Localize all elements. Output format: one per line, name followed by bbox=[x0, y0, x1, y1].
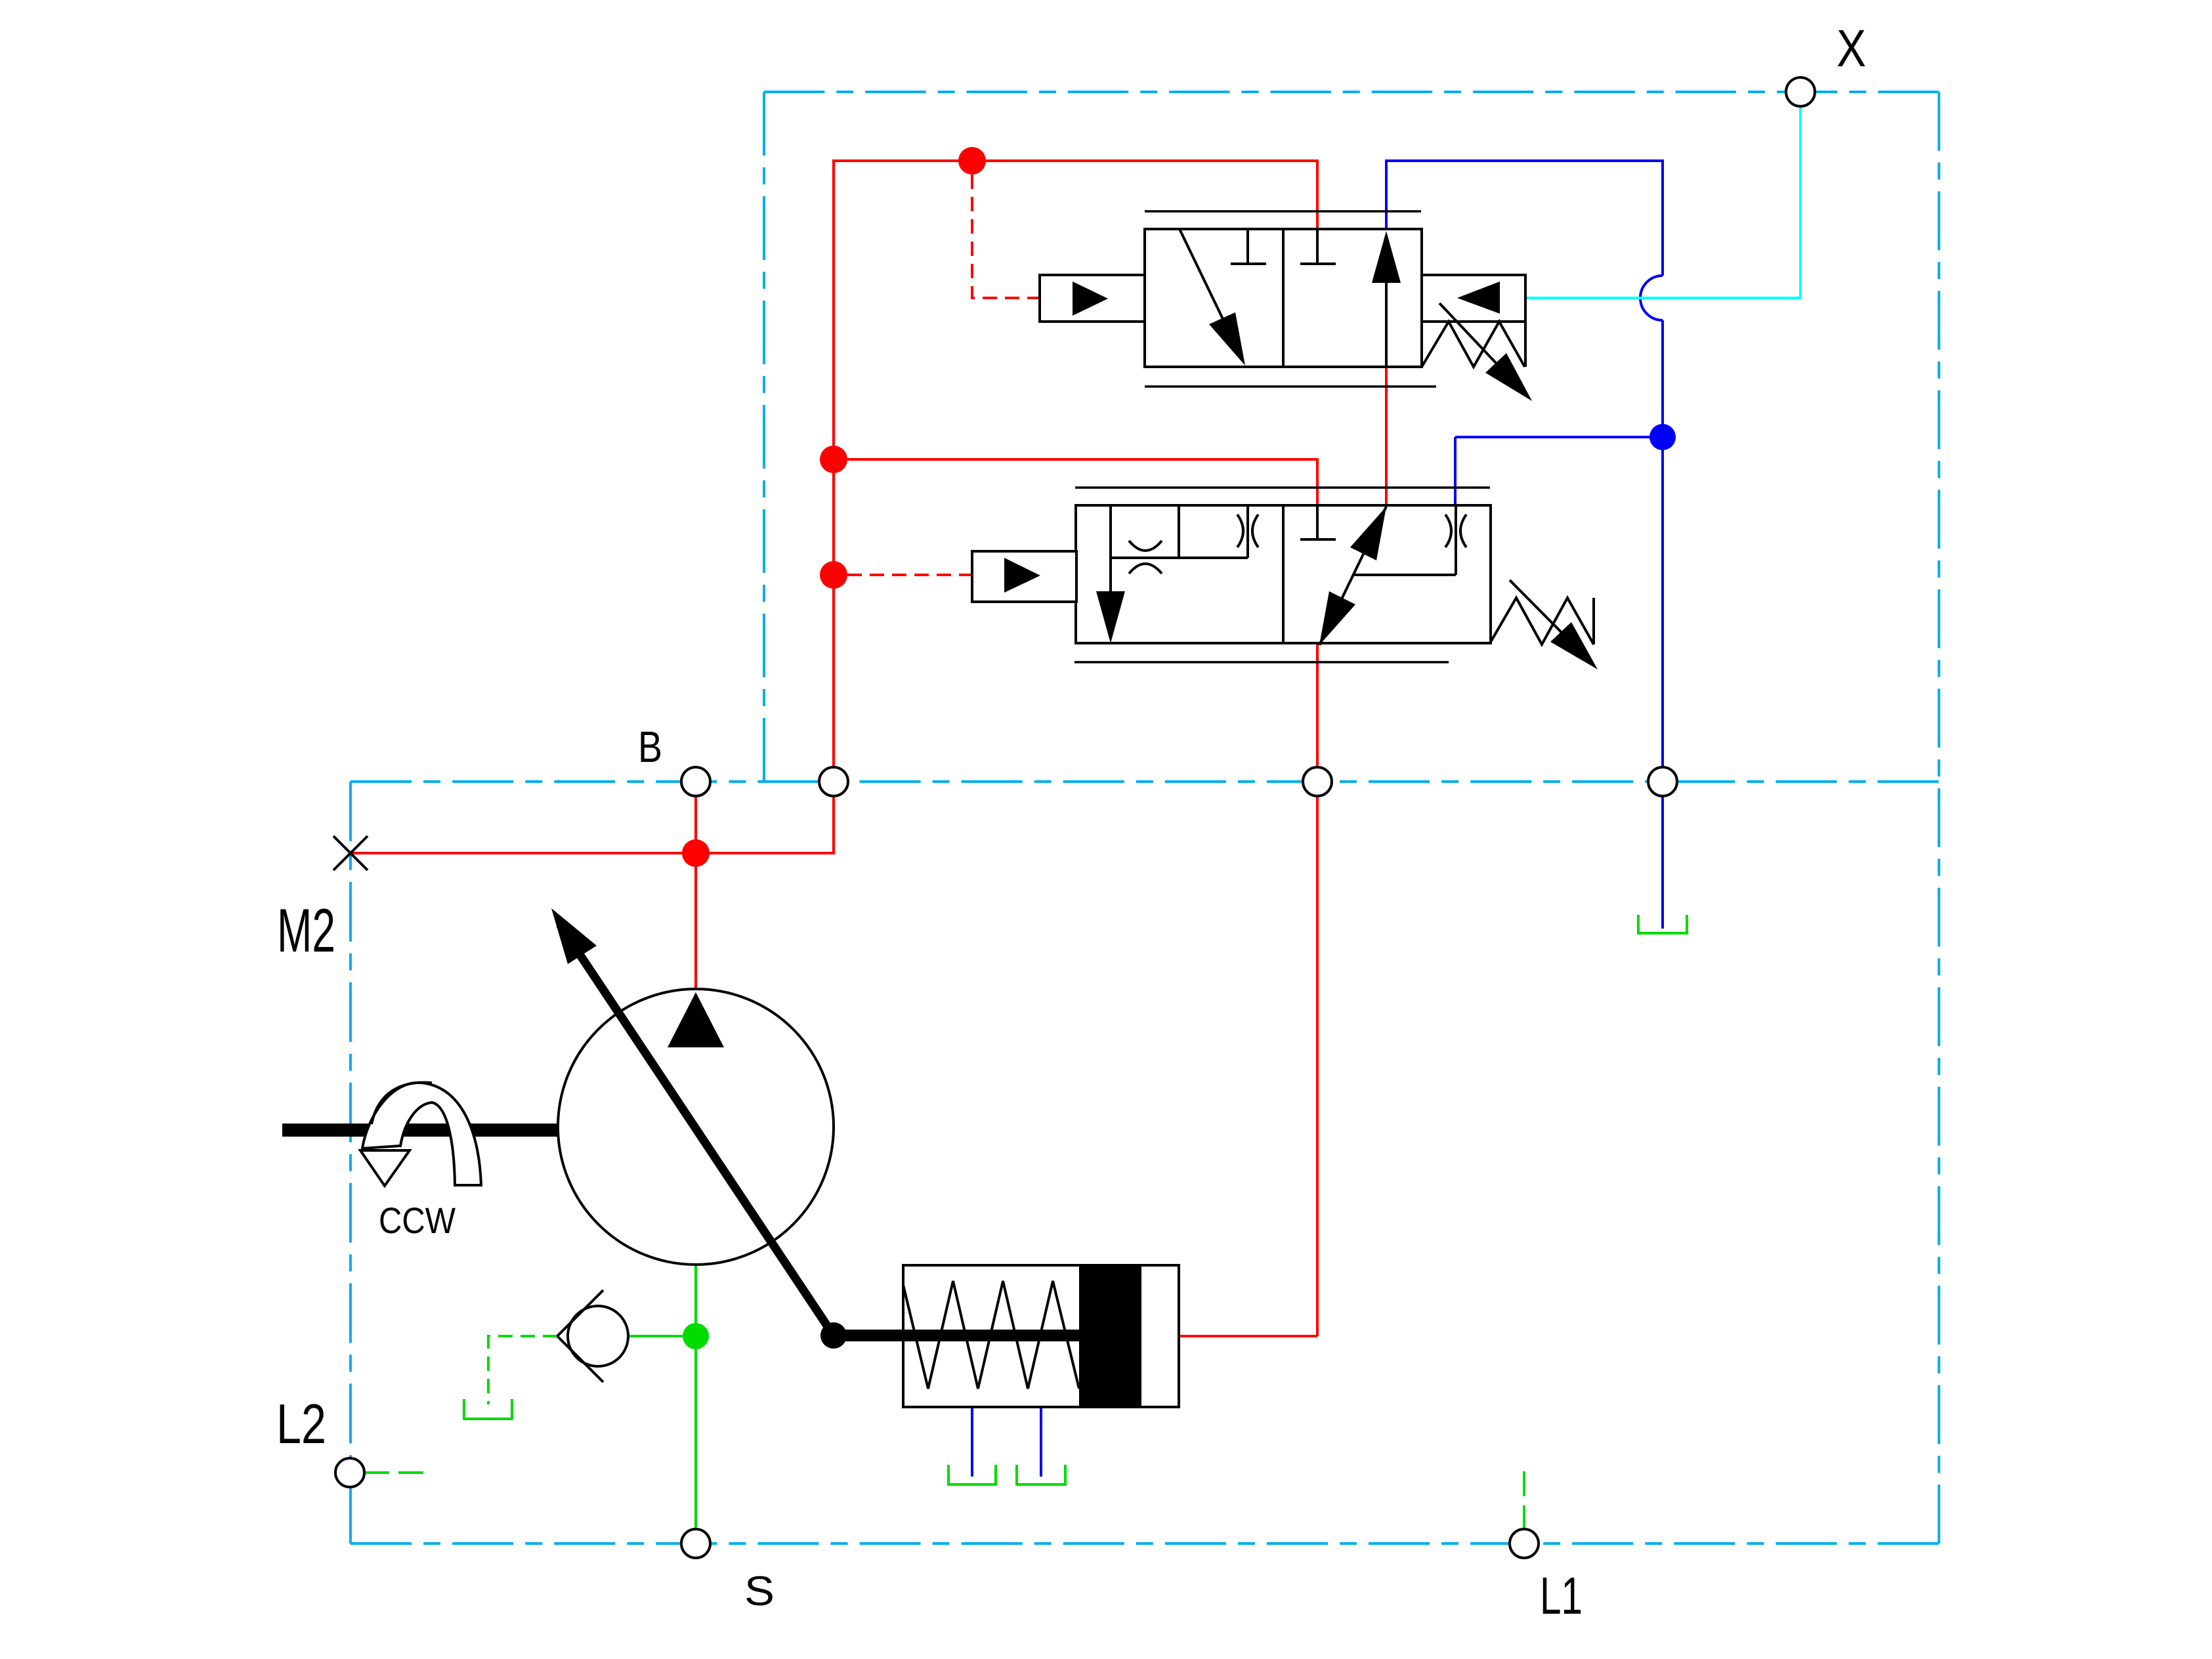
lower valve V2 proportional rail top bbox=[1075, 486, 1490, 489]
upper valve V1 right position flow path line bbox=[1385, 281, 1388, 367]
svg-text:CCW: CCW bbox=[379, 1200, 456, 1241]
node red junction near pump outlet bbox=[682, 839, 710, 867]
svg-text:X: X bbox=[1837, 19, 1866, 77]
svg-text:S: S bbox=[744, 1568, 775, 1614]
upper valve V1 left position blocked port T bbox=[1231, 229, 1266, 264]
lower valve V2 proportional rail bottom bbox=[1074, 661, 1449, 663]
wire blue drop to lower valve port bbox=[1454, 437, 1457, 506]
upper valve V1 right pilot box bbox=[1422, 275, 1525, 322]
wire red dashed pilot to upper valve solenoid bbox=[972, 175, 1040, 298]
lower valve V2 right compensator feedback line bbox=[1353, 574, 1456, 576]
check valve circle bbox=[568, 1306, 628, 1366]
enclosure boundary bottom edge bbox=[351, 1542, 1939, 1545]
pump drive shaft bbox=[282, 1123, 559, 1137]
lower valve V2 left position internal horizontal line bbox=[1111, 556, 1248, 559]
servo cylinder body bbox=[903, 1265, 1179, 1407]
enclosure boundary lower-left vertical edge bbox=[349, 782, 352, 1543]
upper valve V1 proportional rail top bbox=[1145, 210, 1421, 213]
upper valve V1 right position blocked port T bbox=[1300, 229, 1336, 264]
lower valve V2 spring bbox=[1490, 598, 1594, 644]
wire blue vertical down to tank bbox=[1661, 320, 1664, 929]
lower valve V2 double flow arrow shaft bbox=[1319, 507, 1386, 645]
lower valve V2 left position flow line bbox=[1109, 505, 1112, 591]
wire green pump suction vertical to S bbox=[694, 1265, 697, 1529]
lower valve V2 position divider bbox=[1282, 505, 1285, 643]
enclosure boundary upper-left vertical edge bbox=[763, 92, 765, 782]
port L1 circle bbox=[1510, 1529, 1539, 1558]
CCW rotation ribbon back edge bbox=[372, 1082, 432, 1124]
svg-text:M2: M2 bbox=[277, 896, 335, 965]
port L2 circle bbox=[335, 1458, 364, 1487]
upper valve V1 spring bbox=[1422, 322, 1525, 367]
wire bright-cyan X pilot line bbox=[1525, 106, 1800, 298]
upper valve V1 proportional rail bottom bbox=[1145, 385, 1436, 388]
lower valve V2 right compensator stem bbox=[1455, 505, 1457, 575]
pump variable displacement arrow head bbox=[551, 908, 597, 964]
tank symbol below cylinder drain 1 bbox=[948, 1465, 996, 1484]
CCW rotation ribbon arrow bbox=[362, 1083, 481, 1185]
servo cylinder rod inside bbox=[903, 1330, 1082, 1341]
enclosure boundary mid horizontal edge bbox=[351, 780, 1939, 783]
wire red link upper valve to lower valve bbox=[1385, 367, 1388, 509]
lower valve V2 orifice restriction arcs bbox=[1129, 541, 1162, 574]
servo cylinder spring bbox=[903, 1281, 1079, 1389]
lever pivot joint bbox=[820, 1322, 847, 1349]
tank symbol below cylinder drain 2 bbox=[1017, 1465, 1065, 1484]
lower valve V2 adjustment arrow bbox=[1510, 580, 1585, 656]
lower valve V2 right position blocked port T bbox=[1300, 505, 1336, 539]
node green junction at pump suction bbox=[683, 1323, 709, 1349]
wire blue branch to lower valve top port bbox=[1455, 436, 1663, 438]
wire green dashed check valve drain to tank bbox=[488, 1336, 557, 1404]
CCW rotation arrow head (hollow) bbox=[360, 1150, 410, 1186]
upper valve V1 body bbox=[1145, 229, 1422, 367]
svg-text:B: B bbox=[638, 723, 662, 772]
enclosure boundary top edge bbox=[764, 91, 1939, 93]
servo piston rod bbox=[834, 1330, 1082, 1341]
upper valve V1 adjustment arrow bbox=[1439, 303, 1518, 387]
servo cylinder piston bbox=[1079, 1265, 1141, 1407]
wire red lower valve out down to servo piston bbox=[1316, 643, 1319, 1336]
port X circle bbox=[1786, 77, 1815, 106]
upper valve V1 left position diagonal arrow head bbox=[1209, 312, 1245, 366]
svg-text:L1: L1 bbox=[1540, 1566, 1583, 1625]
wire red pressure bus top and main riser to X-cross bbox=[351, 161, 1317, 853]
svg-text:L2: L2 bbox=[276, 1393, 326, 1456]
upper valve V1 left position throttled path diagonal bbox=[1180, 229, 1223, 320]
node blue junction bbox=[1649, 424, 1676, 450]
lower valve V2 left position sub divider bbox=[1178, 505, 1180, 558]
lower valve V2 left compensator arcs bbox=[1237, 514, 1258, 547]
wire blue servo cylinder drain 2 bbox=[1040, 1407, 1042, 1477]
upper valve V1 pilot actuator triangle bbox=[1073, 282, 1108, 316]
upper valve V1 right pilot triangle bbox=[1457, 282, 1500, 314]
node red junction on bus 2 bbox=[820, 446, 847, 473]
tank symbol below blue drain line bbox=[1638, 915, 1687, 933]
node red junction on top bus bbox=[958, 147, 986, 175]
wire blue bridge hop over cyan line bbox=[1640, 276, 1663, 320]
lower valve V2 left position down arrow head bbox=[1096, 591, 1125, 643]
lower valve V2 pilot actuator triangle bbox=[1004, 558, 1040, 593]
port circle on lower valve drain bbox=[1303, 767, 1332, 796]
lower valve V2 body bbox=[1076, 505, 1491, 643]
node red junction pilot tap bbox=[820, 561, 847, 589]
upper valve V1 position divider bbox=[1282, 229, 1285, 367]
upper valve V1 right position flow arrow head bbox=[1372, 231, 1401, 283]
enclosure boundary right edge bbox=[1938, 92, 1940, 1543]
upper valve V1 adjustment arrow head bbox=[1485, 353, 1532, 401]
lower valve V2 pilot actuator box bbox=[972, 551, 1076, 602]
lower valve V2 adjustment arrow head bbox=[1550, 622, 1598, 669]
upper valve V1 pilot actuator box bbox=[1040, 275, 1145, 322]
pump P1 variable displacement circle bbox=[558, 989, 834, 1265]
pump swash lever arm bbox=[560, 925, 834, 1335]
lower valve V2 left compensator stem bbox=[1246, 505, 1249, 558]
lower valve V2 double arrow lower head bbox=[1319, 591, 1355, 645]
port circle on blue drain bbox=[1648, 767, 1677, 796]
wire green dashed stub above L1 port bbox=[1523, 1471, 1525, 1529]
wire green dashed stub at L2 port bbox=[364, 1471, 423, 1474]
wire red B-port branch bbox=[694, 796, 697, 853]
port circle on riser bbox=[819, 767, 848, 796]
wire red feed to pump outlet bbox=[694, 853, 697, 990]
check valve seat lines bbox=[557, 1290, 603, 1382]
lower valve V2 double arrow upper head bbox=[1350, 507, 1386, 560]
wire blue servo cylinder drain 1 bbox=[971, 1407, 973, 1477]
wire red bus 2 (to lower valve P port) bbox=[834, 459, 1317, 505]
wire red horizontal to servo piston rod end bbox=[1179, 1335, 1317, 1337]
wire blue from upper valve top port bbox=[1386, 161, 1663, 276]
tank symbol below check valve bbox=[464, 1399, 512, 1419]
port B circle bbox=[681, 767, 710, 796]
lower valve V2 right compensator arcs bbox=[1445, 514, 1466, 547]
port S circle bbox=[681, 1529, 710, 1558]
wire green check valve link bbox=[628, 1335, 696, 1337]
wire red dashed pilot to lower valve solenoid bbox=[847, 574, 972, 576]
X-cross plugged port marker bbox=[333, 836, 368, 870]
pump flow direction triangle bbox=[668, 992, 724, 1047]
